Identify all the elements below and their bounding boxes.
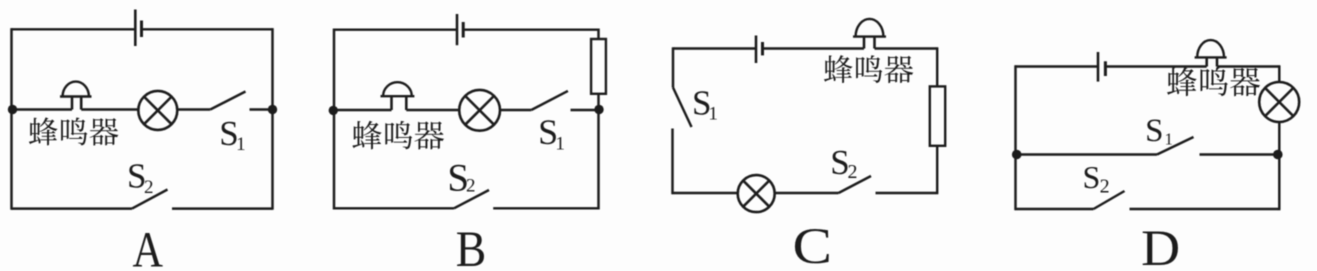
wire B right top stub [597,29,599,40]
wire C right vertical upper [936,47,938,87]
svg-text:2: 2 [466,176,476,197]
wire B buzzer to lamp [406,109,459,111]
wire C left vertical upper [672,47,674,87]
wire C left vertical lower [671,129,673,195]
svg-text:D: D [1141,221,1180,271]
buzzer D [1205,57,1208,66]
wire D left vertical [1014,65,1016,210]
node D-right junction [1273,150,1283,160]
label 蜂鸣器 B [352,121,444,150]
battery B [456,14,459,45]
battery A [134,10,137,47]
wire C top-left [673,47,756,49]
label 蜂鸣器 A [29,117,118,145]
wire D middle to switch [1016,153,1158,155]
node A-right junction [268,105,277,114]
wire A lamp to switch [177,108,210,110]
switch S2 A blade [132,190,168,209]
svg-text:1: 1 [555,134,565,155]
wire C right vertical lower [936,145,938,194]
svg-text:2: 2 [1100,176,1110,198]
wire D top-right [1217,65,1279,67]
buzzer B [390,96,393,110]
svg-text:2: 2 [848,161,858,183]
wire A middle to buzzer [12,108,73,110]
wire A bottom-left [12,207,133,209]
node A-left junction [8,105,17,114]
lamp B [459,90,500,131]
node B-right junction [594,105,603,114]
wire A left vertical [10,28,12,210]
switch S2 C blade [839,176,872,193]
wire B resistor to node [597,93,599,110]
wire A top-right [142,28,273,30]
svg-text:S: S [1145,113,1163,149]
wire A switch to node [250,108,273,110]
wire D right vertical lower [1278,122,1280,211]
switch S1 D blade [1157,137,1194,155]
wire A right vertical [271,28,273,210]
wire A buzzer to lamp [81,108,139,110]
lamp C [738,175,775,212]
resistor B [591,39,606,94]
wire B bottom-right [493,207,598,209]
svg-text:A: A [133,222,164,271]
svg-text:1: 1 [236,134,246,155]
node B-left junction [329,106,338,115]
wire B top-right [463,28,598,30]
wire D right stub to lamp [1278,65,1280,82]
node D-left junction [1012,150,1022,160]
wire D top-left [1016,65,1099,67]
wire A top-left [12,28,136,30]
buzzer C [863,37,866,49]
label 蜂鸣器 C [824,55,913,83]
battery D [1097,52,1100,82]
svg-text:2: 2 [144,177,154,198]
wire C top-mid [763,47,865,49]
wire A bottom-right [172,207,273,209]
switch S2 D blade [1094,191,1125,209]
wire C top-right [875,47,938,49]
svg-text:1: 1 [708,104,718,125]
switch S1 C blade [673,88,692,128]
wire B right vertical lower [597,110,599,210]
switch S1 B blade [531,91,568,110]
wire D bottom-left [1016,208,1094,210]
wire D bottom-right [1130,208,1280,210]
wire B bottom-left [334,207,454,209]
svg-text:C: C [793,219,833,271]
wire C bottom-left [673,192,739,194]
svg-text:1: 1 [1165,130,1173,149]
buzzer A [71,97,74,110]
svg-text:S: S [1083,159,1101,195]
resistor C [930,86,945,145]
label 蜂鸣器 D [1167,67,1260,96]
wire D top-mid [1105,65,1206,67]
wire D middle right [1200,153,1280,155]
wire B lamp to switch [500,109,531,111]
wire C lamp to switch [774,192,838,194]
wire B top-left [334,28,457,30]
battery C [755,36,758,64]
lamp A [138,91,177,130]
switch S1 A blade [210,92,245,110]
wire B middle to buzzer [334,109,392,111]
switch S2 B blade [454,190,489,208]
wire B left vertical [333,29,335,210]
wire C bottom-right [876,192,938,194]
svg-text:B: B [456,222,487,271]
wire B switch to node [571,109,599,111]
lamp D [1259,82,1299,122]
